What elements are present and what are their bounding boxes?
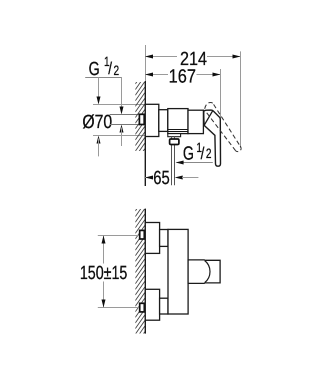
extension line escutcheon bottom (93, 135, 145, 137)
svg-text:/: / (108, 59, 112, 78)
lever grip end arc (205, 261, 210, 283)
lever grip (front view) (205, 260, 221, 283)
pipe fitting at wall (139, 114, 144, 124)
dimension 167 arrow right (213, 73, 221, 77)
dimension G1/2 (pipe) shafts and arrows (120, 78, 124, 147)
dimension 150±15 arrow up (102, 236, 106, 244)
svg-text:2: 2 (114, 63, 120, 78)
body block 2 (side view) (188, 110, 203, 133)
label G 1/2 (outlet) (183, 140, 212, 165)
svg-text:2: 2 (206, 146, 212, 161)
extension line lower pipe center (98, 307, 139, 309)
dashed lever hub (alternate position) (205, 103, 214, 109)
cartridge dome cap (204, 111, 213, 126)
dimension 214 arrow left (145, 55, 153, 59)
supply pipe lines (110, 114, 140, 116)
dimension 65 line (145, 177, 152, 179)
dashed lever top edge (214, 104, 241, 146)
lever hub (front view) (188, 260, 205, 284)
outlet hose nut (170, 139, 179, 145)
wall line (top drawing) (144, 81, 146, 186)
label G 1/2 underline (85, 77, 122, 79)
wall line (bottom drawing) (144, 209, 146, 334)
svg-text:G: G (183, 144, 194, 165)
extension line upper pipe center (98, 235, 139, 237)
dimension 167 arrow left (145, 73, 153, 77)
body seam lines (168, 129, 188, 131)
outlet flange below body (168, 134, 181, 137)
lower union nut (front view) (160, 298, 168, 314)
upper union nut (front view) (160, 230, 168, 247)
svg-text:150±15: 150±15 (80, 263, 127, 284)
lever handle solid (204, 110, 221, 166)
dimension 214 arrow right (233, 55, 241, 59)
upper escutcheon (front view) (145, 223, 159, 254)
extension line 167 right (220, 69, 222, 147)
dashed lever end cap (236, 146, 241, 152)
svg-text:Ø70: Ø70 (82, 112, 112, 133)
dimension 167 line (145, 74, 221, 76)
label G 1/2 (top left) (85, 54, 122, 80)
lower wall fitting (140, 303, 145, 312)
escutcheon (side view) (145, 104, 159, 136)
svg-text:G: G (89, 59, 100, 80)
label G 1/2 leader line with arrow (177, 162, 213, 164)
extension line 214 right (240, 51, 242, 148)
lower escutcheon (front view) (145, 289, 159, 320)
dimension Ø70 leader shafts and arrows (97, 78, 101, 157)
svg-text:167: 167 (169, 66, 196, 87)
extension line escutcheon top (93, 104, 145, 106)
body (front view) (168, 229, 188, 314)
wall hatch (top drawing) (135, 70, 145, 162)
svg-text:/: / (201, 144, 205, 163)
upper wall fitting (140, 230, 145, 239)
dimension 65 tail line (182, 177, 198, 179)
union nut (side view) (159, 110, 168, 132)
dimension 65 arrow left (145, 176, 153, 180)
svg-text:65: 65 (153, 168, 169, 189)
dimension 65 arrow right (outside) (175, 176, 183, 180)
dimension 150±15 line upper segment (103, 236, 105, 264)
body block 1 (side view) (168, 109, 188, 134)
dashed lever bottom edge (206, 112, 235, 150)
wall hatch (bottom drawing) (135, 197, 145, 345)
dimension 214 line (145, 56, 241, 58)
dimension 150±15 arrow down (102, 300, 106, 308)
wall extension line upper (to 214/167 dims) (145, 45, 147, 81)
outlet nipple lines (171, 137, 173, 186)
dimension 150±15 line lower segment (103, 282, 105, 308)
